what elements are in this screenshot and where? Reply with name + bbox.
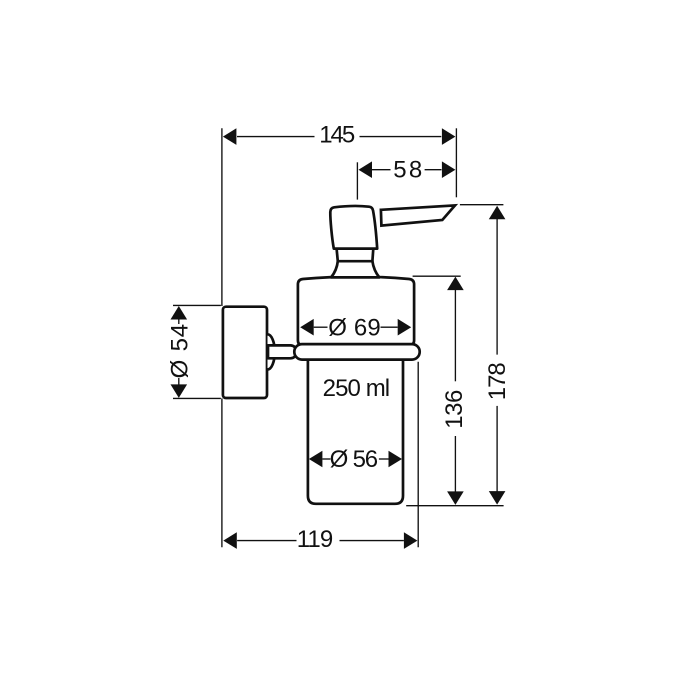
holder ring [294,344,419,360]
dimension line 145 [237,136,315,138]
arrowhead 58 left [359,161,373,178]
extension line left (wall line, shared by 145 and Ø54) [221,128,223,306]
arrowhead 178 up [489,206,506,220]
arrowhead 145 left [223,128,237,145]
wall plate [223,307,267,398]
dimension line 136 [454,289,456,381]
arrowhead 58 right [442,161,456,178]
svg-text:178: 178 [484,362,511,400]
body (pump collar, Ø69) [298,277,414,346]
arrowhead Ø54 up [171,306,188,320]
dimension line 178 [496,218,498,354]
svg-text:145: 145 [319,122,355,149]
arrowhead 119 right [404,532,418,549]
arrowhead Ø56 left [309,451,323,468]
extension line top of 178 (lever tip horizontal) [460,204,504,206]
bottle (glass 250 ml) [308,357,403,504]
extension line right of 119 [417,362,419,548]
arrowhead Ø69 right [398,319,412,336]
svg-text:136: 136 [441,390,468,429]
extension line top of Ø54 [173,304,221,306]
arrowhead 178 down [489,491,506,505]
dimension line Ø56 [322,458,330,460]
extension line left of 58 [356,162,358,199]
extension line left lower (shared by 119) [221,398,223,547]
dimension line Ø54 [178,319,180,324]
arrowhead 136 down [447,491,464,505]
arrowhead 145 right [442,128,456,145]
arrowhead 136 up [447,277,464,291]
dimension line Ø69 [314,326,328,328]
neck band [337,249,374,262]
svg-text:Ø 56: Ø 56 [330,446,379,473]
dimension line 58 [371,169,390,171]
wall plate dome [268,334,275,369]
arrowhead Ø54 down [171,384,188,398]
arrowhead 119 left [223,532,237,549]
arrowhead Ø69 left [300,319,314,336]
pump head [330,206,377,249]
holder arm [268,345,297,358]
svg-text:Ø 54: Ø 54 [166,324,193,379]
svg-text:119: 119 [297,526,334,553]
extension line bottom of Ø54 [173,397,221,399]
svg-text:Ø 69: Ø 69 [328,314,381,341]
arrowhead Ø56 right [389,451,403,468]
lever [381,205,455,225]
extension line top of 136 [413,275,461,277]
dimension line 119 [237,540,296,542]
extension line bottom shared by 136 and 178 [406,505,503,507]
svg-text:58: 58 [393,157,422,184]
extension line right of 145/58 (lever tip vertical) [455,128,457,197]
svg-text:250 ml: 250 ml [323,375,391,402]
neck flare [331,261,379,277]
